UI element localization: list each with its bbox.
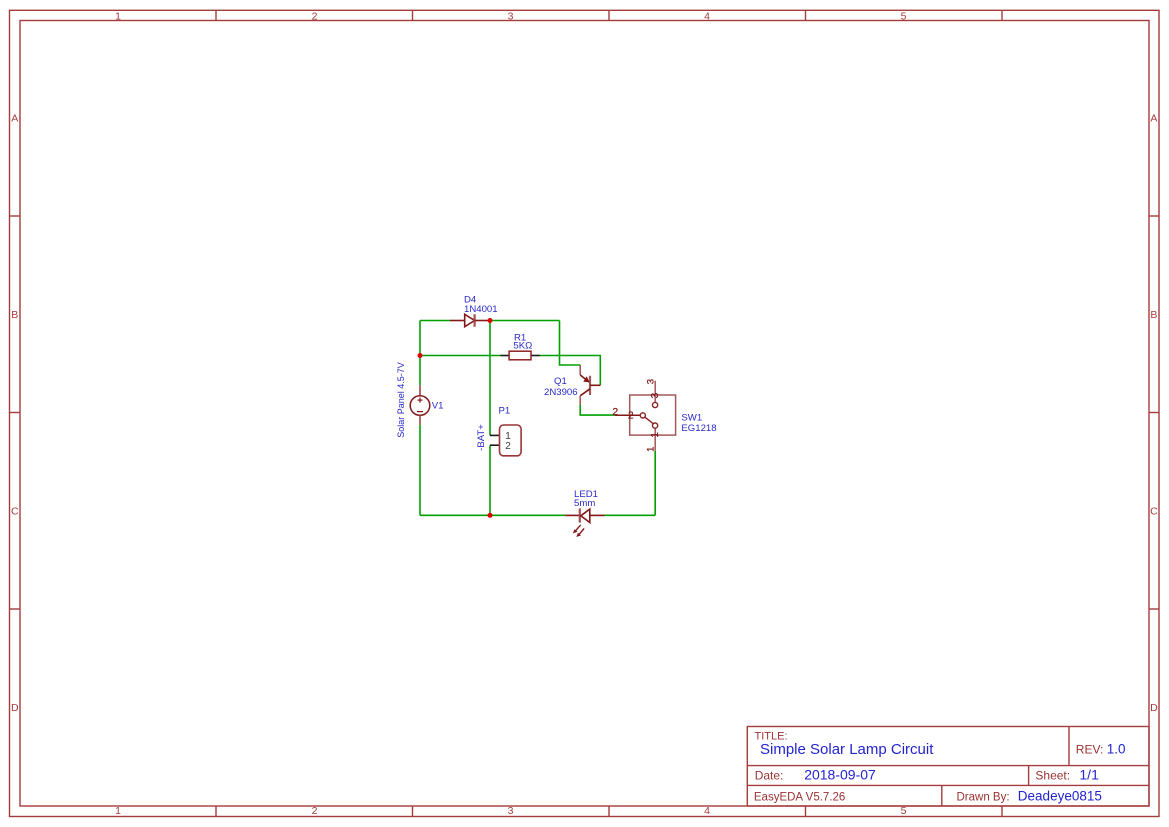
frame column ticks top [216,10,1002,20]
wire bottom horizontal right [604,514,656,516]
svg-text:2: 2 [312,11,318,23]
svg-text:3: 3 [508,11,514,23]
resistor R1 [500,351,540,360]
wire R1 right to base [540,356,600,386]
svg-text:Q1: Q1 [554,376,567,387]
wire left vertical lower [419,425,421,515]
svg-text:1: 1 [115,11,121,23]
svg-text:5: 5 [901,11,907,23]
switch SW1 pin 2 lead [615,414,640,416]
svg-text:1: 1 [645,447,656,452]
title block border [747,727,1149,807]
svg-text:Drawn By:: Drawn By: [957,792,1010,804]
wire R1 left [420,355,500,357]
svg-text:A: A [11,113,18,125]
svg-text:1/1: 1/1 [1079,767,1099,783]
svg-text:2: 2 [312,805,318,817]
transistor Q1 emitter arrow [583,376,589,382]
LED1 emission arrow 1 [573,525,581,534]
svg-text:5: 5 [901,805,907,817]
wire middle vertical upper [489,321,491,436]
svg-text:Sheet:: Sheet: [1035,769,1070,783]
svg-text:2: 2 [628,411,634,422]
svg-text:D: D [1150,702,1158,714]
switch SW1 contact circle lower [653,423,658,428]
wire collector down [580,405,615,415]
svg-text:1.0: 1.0 [1107,741,1126,756]
svg-text:Simple Solar Lamp Circuit: Simple Solar Lamp Circuit [760,741,934,758]
svg-text:3: 3 [650,392,661,398]
svg-text:-BAT+: -BAT+ [476,424,487,451]
LED1 [565,508,604,522]
svg-text:5mm: 5mm [574,498,595,509]
frame row labels right [1150,113,1158,715]
svg-text:C: C [1150,506,1158,518]
wire right vertical to switch [654,451,656,516]
svg-text:B: B [1150,309,1157,321]
svg-text:2: 2 [505,441,511,452]
svg-text:3: 3 [645,379,656,384]
junction dot D4 out [488,318,493,323]
svg-text:EG1218: EG1218 [681,423,716,434]
wire top-left horizontal [420,320,450,322]
svg-text:4: 4 [704,11,710,23]
frame column ticks bottom [216,806,1002,817]
wire top-right horizontal [490,320,560,322]
svg-text:B: B [11,309,18,321]
frame column labels top [115,11,907,23]
svg-text:D: D [11,702,19,714]
svg-text:REV:: REV: [1076,742,1104,756]
svg-text:C: C [11,506,19,518]
diode D4 [450,314,490,327]
svg-text:1: 1 [650,432,661,438]
svg-text:4: 4 [704,805,710,817]
svg-text:2018-09-07: 2018-09-07 [804,767,876,783]
wire left vertical upper [419,321,421,386]
svg-text:1: 1 [115,805,121,817]
switch SW1 contact circle pin2 [640,413,645,418]
wire vertical drop to emitter [560,321,581,366]
LED1 emission arrow 2 [576,529,584,538]
frame row labels left [11,113,19,715]
svg-text:P1: P1 [499,406,511,417]
switch SW1 box [630,395,676,435]
switch SW1 pin 3 lead [654,381,656,403]
svg-text:1N4001: 1N4001 [464,304,498,315]
svg-text:A: A [1150,113,1157,125]
svg-text:V1: V1 [432,401,444,412]
svg-text:2: 2 [612,406,618,418]
transistor Q1 [580,365,600,405]
frame column labels bottom [115,805,907,817]
switch SW1 lever [645,417,653,424]
voltage source V1 [410,385,430,425]
wire middle vertical lower [489,445,491,515]
frame row ticks left [10,216,21,609]
svg-text:EasyEDA V5.7.26: EasyEDA V5.7.26 [754,792,845,804]
switch SW1 contact circle pin3 [653,402,658,407]
svg-text:5KΩ: 5KΩ [513,341,532,352]
svg-text:3: 3 [508,805,514,817]
junction dot bottom [488,513,493,518]
wire bottom horizontal left [420,514,565,516]
svg-text:Date:: Date: [755,769,784,783]
frame row ticks right [1149,216,1159,609]
connector P1 [490,425,521,456]
switch SW1 pin 1 lead [654,428,656,451]
junction dot R1 wire [418,353,423,358]
svg-text:2N3906: 2N3906 [544,387,578,398]
svg-text:Solar Panel 4.5-7V: Solar Panel 4.5-7V [396,362,406,438]
svg-text:Deadeye0815: Deadeye0815 [1018,788,1102,803]
